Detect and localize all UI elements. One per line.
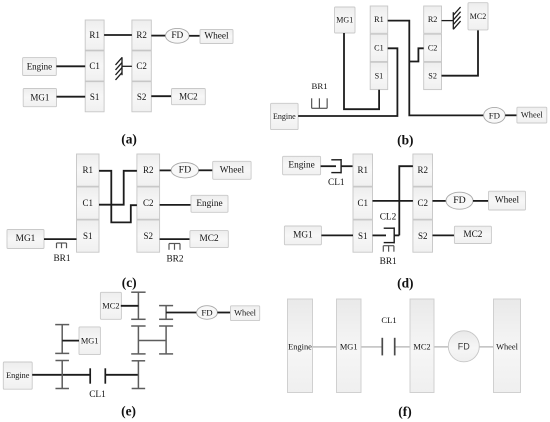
svg-text:BR2: BR2 — [166, 254, 183, 264]
clutch CL1 symbol (d) — [331, 159, 341, 173]
svg-text:Engine: Engine — [288, 161, 314, 171]
svg-text:MG1: MG1 — [336, 16, 353, 25]
svg-text:C1: C1 — [82, 198, 93, 208]
gear shaft B bottom (e) — [132, 361, 146, 389]
svg-text:MC2: MC2 — [463, 230, 482, 240]
MC2 box (c) — [190, 231, 228, 248]
wire C1-C2 (d) — [373, 200, 413, 202]
wire C2 jog to R1 line (b) — [409, 48, 423, 61]
svg-text:Wheel: Wheel — [204, 32, 229, 42]
svg-text:MG1: MG1 — [16, 234, 36, 244]
svg-text:BR1: BR1 — [380, 257, 397, 267]
svg-text:(b): (b) — [397, 133, 413, 148]
wire engine shaft (e) — [32, 374, 90, 376]
gear shaft C middle (e) — [159, 326, 173, 354]
svg-text:S1: S1 — [83, 231, 93, 241]
clutch CL2 symbol (d) — [384, 227, 395, 243]
svg-text:R1: R1 — [374, 15, 384, 24]
svg-text:BR1: BR1 — [312, 81, 328, 91]
svg-text:MC2: MC2 — [413, 342, 430, 351]
svg-text:S2: S2 — [137, 92, 147, 102]
svg-text:R2: R2 — [428, 15, 438, 24]
svg-text:C1: C1 — [374, 43, 384, 52]
svg-text:C2: C2 — [143, 198, 154, 208]
svg-text:Engine: Engine — [196, 199, 222, 209]
ground on C2 (a) — [116, 57, 132, 80]
svg-text:FD: FD — [171, 31, 183, 41]
svg-text:Wheel: Wheel — [234, 309, 257, 318]
svg-text:Engine: Engine — [27, 62, 53, 72]
svg-text:MG1: MG1 — [293, 230, 313, 240]
svg-text:CL2: CL2 — [380, 212, 397, 222]
wire MG1-S1 (b) — [344, 33, 379, 109]
svg-text:R1: R1 — [82, 165, 93, 175]
wheel box (a) — [200, 30, 233, 44]
svg-text:C1: C1 — [89, 61, 100, 71]
svg-text:FD: FD — [489, 110, 500, 120]
drive line (f) — [313, 346, 494, 348]
svg-text:Engine: Engine — [288, 342, 312, 351]
svg-text:S1: S1 — [358, 231, 368, 241]
svg-text:S2: S2 — [143, 231, 153, 241]
wire S2-MC2 (c) — [160, 238, 190, 240]
svg-text:S1: S1 — [90, 92, 100, 102]
svg-text:Wheel: Wheel — [521, 111, 544, 120]
engine box (a) — [23, 58, 57, 76]
wire R2-FD (c) — [160, 169, 172, 171]
wheel box (c) — [213, 161, 251, 179]
wire S2-MC2 (a) — [151, 95, 171, 97]
final drive FD (c) — [171, 163, 198, 178]
clutch CL1 plates (e) — [90, 368, 105, 383]
wire R1-C2 (c) — [99, 171, 137, 223]
brake BR1 symbol (b) — [312, 98, 328, 108]
svg-text:Engine: Engine — [273, 112, 296, 121]
svg-text:R2: R2 — [143, 165, 154, 175]
wire MG1-S1 (d) — [321, 234, 353, 236]
engine box (b) — [271, 103, 299, 129]
svg-text:R2: R2 — [417, 165, 428, 175]
wire engine-C1 (b) — [298, 48, 397, 116]
svg-text:Wheel: Wheel — [220, 165, 245, 175]
MG1 slab (f) — [337, 299, 362, 393]
engine box (d) — [283, 156, 321, 175]
wire C2-FD (d) — [433, 200, 447, 202]
MC2 box (b) — [468, 3, 488, 30]
final drive FD (d) — [446, 192, 473, 209]
planetary gear 2 (d) R2/C2/S2 — [413, 154, 433, 252]
planetary gear 2 (b) R2/C2/S2 — [424, 6, 442, 90]
wheel box (d) — [489, 191, 526, 210]
svg-text:S2: S2 — [418, 231, 428, 241]
wire CL2-R2line (d) — [394, 234, 399, 236]
engine box (c) — [191, 195, 228, 212]
brake BR1 symbol (d) — [383, 246, 394, 252]
svg-text:MC2: MC2 — [179, 92, 198, 102]
final drive FD (e) — [197, 306, 218, 320]
gear shaft A bottom (e) — [55, 361, 68, 389]
wheel box (b) — [517, 107, 547, 123]
wire MC2-shaftB (e) — [121, 305, 139, 307]
svg-text:MC2: MC2 — [102, 301, 119, 310]
MC2 slab (f) — [410, 299, 434, 393]
svg-text:CL1: CL1 — [89, 390, 106, 400]
wire shaftB-shaftC link (e) — [138, 340, 166, 342]
wire FD-Wheel (e) — [217, 312, 230, 314]
planetary gear 1 (c) R1/C1/S1 — [77, 154, 100, 252]
svg-text:Wheel: Wheel — [496, 342, 519, 351]
wire CL1-R1 (d) — [341, 165, 353, 167]
wire engine-C1 (a) — [56, 65, 85, 67]
MG1 box (a) — [23, 89, 56, 107]
planetary gear 1 (b) R1/C1/S1 — [370, 6, 388, 90]
final drive FD (a) — [166, 28, 190, 43]
wire MG1-shaft (e) — [62, 340, 79, 342]
svg-text:Engine: Engine — [6, 371, 30, 380]
MG1 box (d) — [284, 226, 321, 245]
wire engine-CL1 (d) — [321, 165, 336, 167]
svg-text:MG1: MG1 — [30, 93, 49, 103]
MG1 box (e) — [79, 327, 100, 355]
gear shaft B top (e) — [131, 292, 145, 319]
wire FD-Wheel (c) — [199, 169, 213, 171]
wheel slab (f) — [494, 299, 521, 393]
svg-text:C1: C1 — [357, 198, 368, 208]
wire R1-FD (b) — [388, 21, 484, 116]
planetary gear 1 (a) R1/C1/S1 — [85, 20, 104, 112]
wire C2-engine (c) — [160, 204, 191, 206]
MC2 box (a) — [172, 89, 206, 105]
wire MG1-S1 (a) — [57, 96, 86, 98]
svg-text:C2: C2 — [428, 43, 438, 52]
svg-text:(d): (d) — [397, 275, 413, 290]
svg-text:MC2: MC2 — [200, 234, 219, 244]
svg-text:FD: FD — [453, 195, 466, 206]
ground on R2 (b) — [442, 7, 461, 29]
svg-text:S2: S2 — [428, 72, 437, 81]
wire R2 down to CL2 (d) — [399, 166, 413, 235]
wire shaftC-FD (e) — [166, 312, 197, 314]
wire MC2-S2 (b) — [442, 30, 479, 76]
wire CL1-shaftB (e) — [105, 374, 138, 376]
svg-text:MG1: MG1 — [81, 336, 99, 345]
gear shaft A middle (e) — [55, 325, 69, 354]
wire R2-FD (a) — [151, 35, 165, 37]
wire S2-MC2 (d) — [433, 234, 455, 236]
svg-text:CL1: CL1 — [381, 315, 396, 325]
svg-text:FD: FD — [458, 341, 470, 351]
planetary gear 2 (a) R2/C2/S2 — [132, 20, 151, 112]
wire FD-Wheel (b) — [505, 114, 517, 116]
svg-text:R2: R2 — [136, 30, 147, 40]
MG1 box (b) — [335, 7, 356, 33]
final drive FD circle (f) — [448, 331, 479, 362]
svg-text:FD: FD — [201, 308, 212, 318]
engine box (e) — [3, 362, 32, 389]
svg-text:(e): (e) — [121, 404, 136, 419]
brake BR2 symbol (c) — [169, 244, 180, 250]
svg-text:R1: R1 — [357, 165, 368, 175]
wire FD-Wheel (a) — [189, 35, 200, 37]
svg-text:(f): (f) — [398, 404, 411, 419]
svg-text:S1: S1 — [375, 72, 384, 81]
wire S1-CL2 (d) — [373, 234, 387, 236]
clutch CL1 plates (f) — [382, 338, 394, 356]
svg-text:MG1: MG1 — [340, 342, 358, 351]
gear shaft B middle (e) — [131, 326, 145, 354]
svg-text:CL1: CL1 — [328, 178, 345, 188]
svg-text:(c): (c) — [122, 275, 137, 290]
svg-text:Wheel: Wheel — [495, 196, 520, 206]
svg-text:R1: R1 — [89, 30, 100, 40]
svg-text:C2: C2 — [136, 61, 147, 71]
wheel box (e) — [231, 306, 260, 321]
MG1 box (c) — [7, 230, 44, 249]
wire R1-R2 (a) — [104, 34, 132, 36]
MC2 box (d) — [454, 226, 491, 243]
brake BR1 symbol (c) — [57, 243, 67, 248]
final drive FD (b) — [484, 107, 506, 123]
wire C1-R2 (c) — [99, 171, 137, 205]
planetary gear 2 (c) R2/C2/S2 — [137, 154, 160, 252]
engine slab (f) — [288, 299, 313, 393]
svg-text:(a): (a) — [121, 132, 137, 147]
svg-text:FD: FD — [179, 165, 192, 176]
wire MG1-S1 (c) — [44, 238, 77, 240]
MC2 box (e) — [100, 292, 121, 319]
gear shaft C top (e) — [159, 306, 173, 320]
wire FD-Wheel (d) — [473, 200, 489, 202]
svg-text:BR1: BR1 — [53, 254, 70, 264]
svg-text:C2: C2 — [417, 198, 428, 208]
svg-text:MC2: MC2 — [470, 12, 486, 21]
planetary gear 1 (d) R1/C1/S1 — [353, 154, 373, 252]
